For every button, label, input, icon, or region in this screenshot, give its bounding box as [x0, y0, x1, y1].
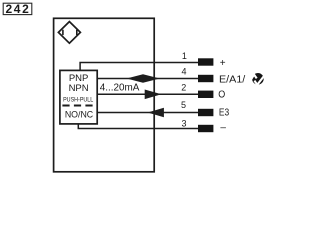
wire pin4 [97, 78, 199, 80]
input arrow on pin5 [148, 108, 164, 118]
figure number label 242 [3, 2, 32, 16]
wire pin3 [78, 124, 198, 129]
wire pin2 [97, 93, 199, 95]
svg-text:5: 5 [181, 100, 186, 110]
terminal pin3 [198, 125, 213, 132]
teach-in icon [251, 73, 264, 85]
dashed separator [62, 104, 92, 106]
svg-text:O: O [218, 90, 225, 101]
svg-text:4...20mA: 4...20mA [100, 83, 140, 94]
svg-text:+: + [220, 58, 226, 69]
terminal pin4 [198, 75, 213, 82]
svg-text:E3: E3 [219, 108, 230, 119]
bidirectional arrow on pin4 [126, 74, 159, 83]
svg-text:242: 242 [5, 2, 30, 16]
terminal pin2 [198, 91, 213, 98]
sensor body outline [54, 18, 155, 172]
svg-text:NPN: NPN [69, 83, 89, 94]
terminal pin1 [198, 58, 213, 65]
proximity switch symbol [58, 22, 80, 44]
output arrow on pin2 [145, 90, 162, 100]
svg-text:NO/NC: NO/NC [65, 109, 94, 119]
wire pin5 [97, 112, 199, 114]
svg-text:PUSH-PULL: PUSH-PULL [63, 96, 94, 103]
svg-text:E/A1/: E/A1/ [219, 75, 246, 86]
wire pin1 [80, 63, 198, 71]
svg-text:2: 2 [181, 82, 186, 92]
terminal pin5 [198, 109, 213, 116]
output stage box [60, 70, 97, 124]
svg-text:4: 4 [181, 67, 186, 77]
svg-text:–: – [220, 123, 226, 134]
svg-text:3: 3 [181, 118, 186, 128]
svg-text:1: 1 [182, 51, 187, 61]
